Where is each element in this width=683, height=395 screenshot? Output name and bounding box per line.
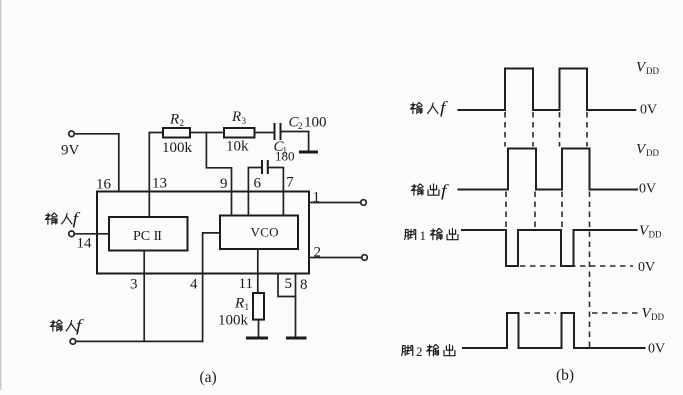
svg-text:16: 16 [96, 177, 112, 193]
input terminal (bottom) [70, 339, 76, 345]
svg-text:R: R [231, 109, 241, 125]
wire input to PC II [74, 233, 109, 235]
row3 waveform pin1 [461, 230, 638, 266]
row1 input f label [410, 98, 448, 117]
row4 pin2 output label [402, 344, 455, 359]
svg-text:11: 11 [239, 276, 253, 292]
input f (bottom) label [50, 316, 84, 335]
svg-text:(b): (b) [556, 367, 574, 384]
ground (C2) [299, 151, 318, 154]
row3 pin1 output label [405, 228, 458, 243]
IC outline box [97, 192, 309, 274]
capacitor C2 [275, 123, 281, 140]
wire pin13 up to R2 [149, 133, 163, 218]
VCO block [220, 216, 298, 250]
9V terminal [69, 131, 75, 137]
svg-text:7: 7 [286, 175, 294, 191]
svg-text:R: R [234, 296, 244, 312]
long dashed vertical [589, 192, 591, 349]
svg-text:DD: DD [646, 66, 659, 76]
svg-text:100k: 100k [162, 140, 193, 156]
svg-text:100k: 100k [218, 313, 249, 329]
wire C1 right to pin7 [268, 168, 284, 216]
svg-text:0V: 0V [640, 103, 657, 118]
svg-text:0V: 0V [638, 260, 655, 275]
resistor R1 [253, 293, 264, 320]
svg-text:8: 8 [300, 277, 308, 293]
svg-text:PC II: PC II [133, 229, 162, 244]
input terminal (pin14) [69, 231, 75, 237]
svg-text:0V: 0V [648, 342, 665, 357]
row1 waveform input f [457, 69, 636, 111]
pin 2 wire and terminal [309, 257, 362, 259]
input f (top) label [45, 209, 80, 228]
ground (pin8) [286, 337, 307, 340]
row4 VDD dashed line [525, 312, 638, 314]
row2 waveform output f [457, 149, 638, 190]
pin 3 wire [143, 251, 145, 342]
svg-text:13: 13 [152, 176, 167, 192]
svg-text:1: 1 [245, 302, 250, 312]
PC II block [109, 217, 188, 251]
svg-text:R: R [169, 112, 179, 128]
capacitor C1 [262, 160, 268, 174]
svg-text:9V: 9V [61, 143, 80, 159]
pin 4 wire from VCO left [203, 233, 220, 342]
svg-text:DD: DD [649, 230, 662, 240]
wire C1 left to pin6 [248, 168, 262, 216]
svg-text:10k: 10k [226, 139, 249, 155]
svg-text:2: 2 [314, 245, 322, 261]
pin 11 wire [257, 249, 259, 293]
wire R1 to ground [258, 320, 260, 337]
svg-text:180: 180 [275, 149, 295, 164]
pin 5 wire [278, 274, 296, 297]
svg-text:6: 6 [254, 176, 262, 192]
wire C2 to ground [281, 132, 309, 151]
wire R2 to R3 [190, 132, 224, 134]
row3 0V dashed line [520, 265, 633, 267]
ground (R1) [246, 337, 268, 340]
row4 waveform pin2 [462, 313, 646, 348]
dashed connectors row1-row2 [505, 112, 587, 147]
wire pin9 L from R2R3 junction [206, 133, 231, 216]
wire 9V to pin16 [74, 134, 119, 192]
svg-text:3: 3 [130, 277, 138, 293]
wire bottom input to pin4 [76, 340, 203, 342]
svg-text:2: 2 [298, 121, 303, 131]
svg-text:2: 2 [180, 118, 185, 128]
row2 output f label [411, 181, 449, 200]
svg-text:DD: DD [646, 148, 659, 158]
svg-text:3: 3 [242, 116, 247, 126]
svg-text:1: 1 [420, 228, 427, 243]
pin 1 wire and terminal [309, 202, 361, 204]
svg-text:1: 1 [313, 190, 321, 206]
svg-text:5: 5 [285, 276, 293, 292]
dashed connectors row2-row3 [506, 192, 562, 229]
svg-text:14: 14 [77, 236, 93, 252]
resistor R3 [224, 128, 255, 138]
left page edge line [0, 0, 2, 390]
wire R3 to C2 [255, 132, 274, 134]
svg-text:2: 2 [416, 344, 423, 359]
pin 8 wire [295, 274, 297, 337]
svg-text:0V: 0V [639, 182, 656, 197]
svg-text:4: 4 [190, 277, 198, 293]
svg-text:9: 9 [220, 176, 228, 192]
svg-text:DD: DD [651, 312, 664, 322]
svg-text:VCO: VCO [251, 225, 279, 240]
svg-text:100: 100 [304, 115, 327, 131]
resistor R2 [163, 128, 190, 138]
svg-text:(a): (a) [200, 369, 217, 386]
